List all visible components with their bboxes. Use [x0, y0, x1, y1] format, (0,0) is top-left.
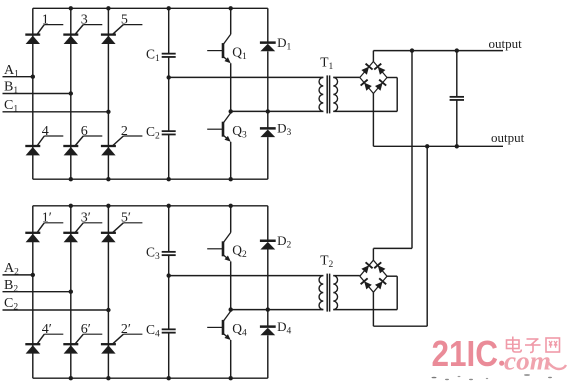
svg-text:2′: 2′	[121, 322, 131, 337]
svg-text:3: 3	[81, 12, 88, 27]
svg-text:output: output	[489, 36, 523, 51]
svg-text:5′: 5′	[121, 211, 131, 226]
svg-text:1: 1	[42, 12, 49, 27]
svg-text:output: output	[491, 130, 525, 145]
svg-text:6′: 6′	[81, 322, 91, 337]
svg-text:1′: 1′	[42, 211, 52, 226]
svg-text:4: 4	[42, 124, 49, 139]
svg-text:2: 2	[121, 124, 128, 139]
svg-text:6: 6	[81, 124, 88, 139]
svg-text:5: 5	[121, 12, 128, 27]
svg-text:com: com	[504, 347, 551, 376]
svg-text:4′: 4′	[42, 322, 52, 337]
svg-text:3′: 3′	[81, 211, 91, 226]
svg-text:21IC: 21IC	[432, 333, 499, 374]
